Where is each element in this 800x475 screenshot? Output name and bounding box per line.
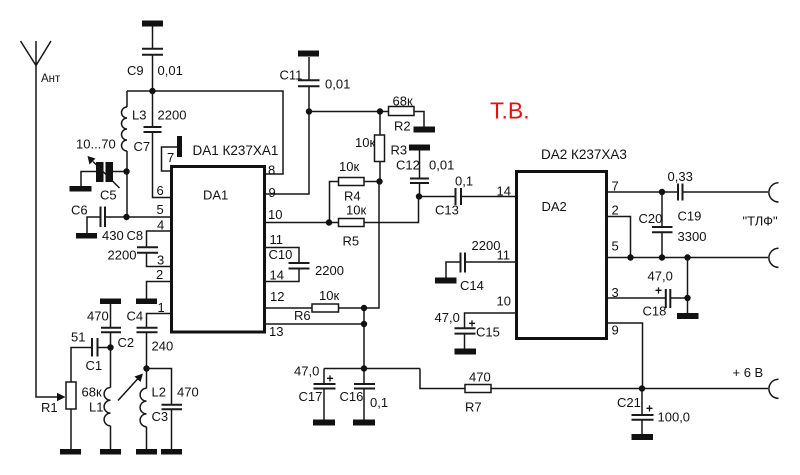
node C20/pin5 xyxy=(659,254,665,260)
ground R1 xyxy=(60,449,81,455)
inductor L1 xyxy=(89,388,111,450)
capacitor C7 2200 xyxy=(134,91,172,198)
svg-text:12: 12 xyxy=(270,289,284,304)
svg-text:L2: L2 xyxy=(152,385,166,400)
wire C1 to node xyxy=(98,347,112,349)
svg-text:R5: R5 xyxy=(343,234,360,249)
svg-text:R1: R1 xyxy=(41,400,58,415)
svg-text:470: 470 xyxy=(177,385,199,400)
svg-text:DA2 К237ХА3: DA2 К237ХА3 xyxy=(541,147,627,162)
svg-text:0,1: 0,1 xyxy=(455,174,473,189)
resistor R5 10к / pin 10 xyxy=(265,197,419,249)
node R6 / vertical xyxy=(361,305,367,311)
svg-text:R6: R6 xyxy=(294,308,311,323)
svg-text:C21: C21 xyxy=(617,395,641,410)
svg-text:5: 5 xyxy=(612,239,619,254)
ground C17 xyxy=(313,420,335,426)
inductor L2 xyxy=(140,369,166,450)
svg-text:3: 3 xyxy=(157,253,164,268)
svg-text:+: + xyxy=(646,402,653,416)
ground at pin 2 xyxy=(136,299,157,305)
node C12/C13/R5 xyxy=(416,193,422,199)
node C4/L2/C3 xyxy=(143,365,149,371)
variable tuning arrow xyxy=(118,379,138,401)
svg-text:"ТЛФ": "ТЛФ" xyxy=(743,214,779,229)
capacitor C13 0,1 xyxy=(419,174,517,218)
svg-text:C2: C2 xyxy=(118,335,135,350)
svg-text:R2: R2 xyxy=(394,119,411,134)
capacitor C19 0,33 xyxy=(668,169,769,224)
svg-text:430: 430 xyxy=(102,228,124,243)
svg-text:C20: C20 xyxy=(639,211,663,226)
svg-text:C16: C16 xyxy=(340,389,364,404)
svg-text:13: 13 xyxy=(269,324,283,339)
svg-text:470: 470 xyxy=(87,309,109,324)
svg-text:470: 470 xyxy=(469,370,491,385)
svg-text:DA1 К237ХА1: DA1 К237ХА1 xyxy=(193,143,279,158)
svg-text:C10: C10 xyxy=(269,247,293,262)
capacitor C12 0,01 xyxy=(396,151,454,197)
capacitor C9 0,01 xyxy=(127,27,183,92)
svg-text:C9: C9 xyxy=(127,63,144,78)
wire pin 7 xyxy=(162,147,178,171)
svg-text:C6: C6 xyxy=(71,203,88,218)
svg-text:C11: C11 xyxy=(280,68,303,83)
svg-text:C3: C3 xyxy=(152,409,169,424)
svg-text:0,01: 0,01 xyxy=(429,158,454,173)
wire antenna feed to R1 wiper xyxy=(36,66,58,398)
svg-text:C19: C19 xyxy=(678,209,702,224)
R1 wiper arrow xyxy=(57,393,66,401)
wire pin 9 to C11 xyxy=(265,87,310,194)
svg-text:+: + xyxy=(655,284,662,298)
op-amp U2 DA2 К237ХА3 xyxy=(517,147,627,339)
svg-text:240: 240 xyxy=(152,339,174,354)
svg-text:DA1: DA1 xyxy=(203,188,228,203)
svg-text:+: + xyxy=(469,317,476,331)
node R3/R4 xyxy=(376,178,382,184)
svg-text:10к: 10к xyxy=(355,135,375,150)
resistor R2 68к xyxy=(389,94,415,134)
capacitor C11 0,01 xyxy=(280,57,351,92)
node L3 / pin 5 xyxy=(123,214,129,220)
svg-text:0,33: 0,33 xyxy=(668,169,693,184)
node C18 right xyxy=(684,295,690,301)
capacitor C15 47,0 / pin 10 xyxy=(435,310,517,349)
antenna xyxy=(21,41,62,85)
wire C17 to R7 corner xyxy=(324,368,420,370)
svg-text:14: 14 xyxy=(497,184,511,199)
capacitor C2 470 xyxy=(87,304,134,388)
svg-text:6: 6 xyxy=(157,183,164,198)
wire R1 bottom to ground xyxy=(70,409,72,450)
svg-text:47,0: 47,0 xyxy=(294,364,319,379)
ground C18 xyxy=(677,313,699,319)
wire top rail to pin 8 loop xyxy=(127,91,283,174)
ground C5 xyxy=(70,186,92,192)
wire down to C16 node xyxy=(363,308,365,369)
inductor L3 2200 xyxy=(122,91,187,217)
capacitor C3 470 xyxy=(152,385,199,450)
svg-text:2200: 2200 xyxy=(472,238,501,253)
svg-text:8: 8 xyxy=(268,163,275,178)
ground above C9 xyxy=(142,21,163,27)
svg-text:R3: R3 xyxy=(391,143,408,158)
svg-text:0,01: 0,01 xyxy=(158,63,183,78)
+6V rail xyxy=(491,388,768,390)
wire node to C3 xyxy=(147,369,172,405)
wire R1 top to C1/C2 junction xyxy=(71,348,92,383)
ground C16 xyxy=(353,420,375,426)
svg-text:L1: L1 xyxy=(89,400,103,415)
ground C15 xyxy=(455,349,477,355)
node C9 top rail xyxy=(149,88,155,94)
svg-text:68к: 68к xyxy=(82,385,102,400)
wire pin 2 to ground xyxy=(147,282,172,299)
resistor R1 68к xyxy=(41,382,102,415)
svg-text:2200: 2200 xyxy=(315,263,344,278)
svg-text:10к: 10к xyxy=(339,159,359,174)
wire pin 5 output xyxy=(607,257,769,259)
wire pin 13 xyxy=(265,323,365,325)
connector ТЛФ top xyxy=(769,183,779,202)
wire pin 7 to C19 xyxy=(607,191,678,193)
svg-text:10к: 10к xyxy=(346,203,366,218)
wire pin 9 down to +6V rail xyxy=(607,323,643,389)
node C5/L3 xyxy=(123,168,129,174)
svg-text:9: 9 xyxy=(612,323,619,338)
svg-text:10...70: 10...70 xyxy=(76,137,116,152)
connector +6V xyxy=(769,379,779,398)
svg-text:L3: L3 xyxy=(132,108,146,123)
svg-text:+ 6 В: + 6 В xyxy=(733,365,764,380)
svg-text:3300: 3300 xyxy=(678,229,707,244)
ground R2 xyxy=(414,127,436,133)
wire R2 to ground xyxy=(414,112,424,127)
svg-text:2200: 2200 xyxy=(108,248,137,263)
svg-text:1: 1 xyxy=(158,300,165,315)
capacitor C6 430 xyxy=(71,203,172,244)
node pin 13 xyxy=(361,321,367,327)
capacitor C8 2200 xyxy=(108,228,172,267)
svg-text:R7: R7 xyxy=(465,400,482,415)
ground C14 xyxy=(435,278,457,284)
svg-text:C18: C18 xyxy=(643,304,667,319)
ground C3 xyxy=(161,449,182,455)
svg-text:C13: C13 xyxy=(435,203,459,218)
svg-text:2200: 2200 xyxy=(158,108,187,123)
svg-text:14: 14 xyxy=(270,268,284,283)
variable capacitor C5 10...70 xyxy=(76,137,127,203)
ground above C2 xyxy=(100,299,121,305)
node C11 / R2 line xyxy=(306,108,312,114)
capacitor C14 2200 / pin 11 xyxy=(446,238,517,293)
node C1/C2/L1 xyxy=(107,344,113,350)
svg-text:Т.В.: Т.В. xyxy=(490,98,530,124)
svg-text:C7: C7 xyxy=(134,139,151,154)
ground C21 xyxy=(632,434,654,440)
svg-text:0,01: 0,01 xyxy=(325,77,350,92)
capacitor C16 0,1 xyxy=(340,369,389,420)
svg-text:5: 5 xyxy=(157,202,164,217)
capacitor C18 47,0 / pin 3 xyxy=(607,269,688,319)
svg-text:7: 7 xyxy=(167,150,174,165)
svg-text:51: 51 xyxy=(71,330,85,345)
svg-text:C4: C4 xyxy=(127,309,144,324)
node pin 9 / C21 xyxy=(639,385,645,391)
svg-text:C8: C8 xyxy=(127,228,144,243)
resistor R4 10к xyxy=(330,159,380,223)
node pin2/pin5 xyxy=(627,254,633,260)
svg-text:C14: C14 xyxy=(460,278,484,293)
node R3 top xyxy=(377,108,383,114)
svg-text:C1: C1 xyxy=(86,358,103,373)
node C20 top xyxy=(659,189,665,195)
wire pin5 net down to ground xyxy=(687,258,689,314)
connector output bottom xyxy=(769,248,779,267)
ground above C12 xyxy=(409,145,430,151)
svg-text:10к: 10к xyxy=(319,288,339,303)
wire pin 2 stub xyxy=(607,217,631,258)
svg-text:9: 9 xyxy=(269,185,276,200)
svg-text:2: 2 xyxy=(612,203,619,218)
wire C11 node to R2 xyxy=(309,111,389,113)
svg-text:C12: C12 xyxy=(396,158,420,173)
pin 7 electrode bar xyxy=(177,136,182,157)
capacitor C4 240 xyxy=(127,309,174,369)
svg-text:47,0: 47,0 xyxy=(435,310,460,325)
svg-text:4: 4 xyxy=(157,218,164,233)
ground L1 xyxy=(100,449,121,455)
svg-text:+: + xyxy=(327,372,334,386)
ground L2 xyxy=(136,449,157,455)
svg-text:47,0: 47,0 xyxy=(648,269,673,284)
svg-text:2: 2 xyxy=(156,267,163,282)
svg-text:68к: 68к xyxy=(393,94,413,109)
capacitor C21 100,0 xyxy=(617,389,690,435)
ground C6 xyxy=(76,233,97,239)
capacitor C20 3300 xyxy=(639,192,707,258)
svg-text:100,0: 100,0 xyxy=(658,410,691,425)
capacitor C17 47,0 xyxy=(294,364,336,420)
resistor R7 470 xyxy=(420,369,491,415)
svg-text:C15: C15 xyxy=(476,325,500,340)
svg-text:11: 11 xyxy=(270,232,284,247)
ground above C11 xyxy=(298,51,319,57)
node C18/pin5 xyxy=(684,254,690,260)
svg-text:0,1: 0,1 xyxy=(370,395,388,410)
svg-text:R4: R4 xyxy=(344,189,361,204)
capacitor C1 51 xyxy=(71,330,102,374)
node R4/R5 xyxy=(326,219,332,225)
svg-text:10: 10 xyxy=(268,207,282,222)
resistor R3 10к xyxy=(355,112,407,182)
svg-text:C5: C5 xyxy=(100,188,117,203)
capacitor C10 2200 xyxy=(265,247,344,282)
resistor R6 10к / pin 12 xyxy=(265,182,380,324)
svg-text:DA2: DA2 xyxy=(542,199,567,214)
svg-text:Ант: Ант xyxy=(41,73,61,85)
svg-text:10: 10 xyxy=(497,294,511,309)
svg-text:C17: C17 xyxy=(299,389,323,404)
op-amp U1 DA1 К237ХА1 xyxy=(172,143,279,332)
node C16/C17 xyxy=(361,365,367,371)
